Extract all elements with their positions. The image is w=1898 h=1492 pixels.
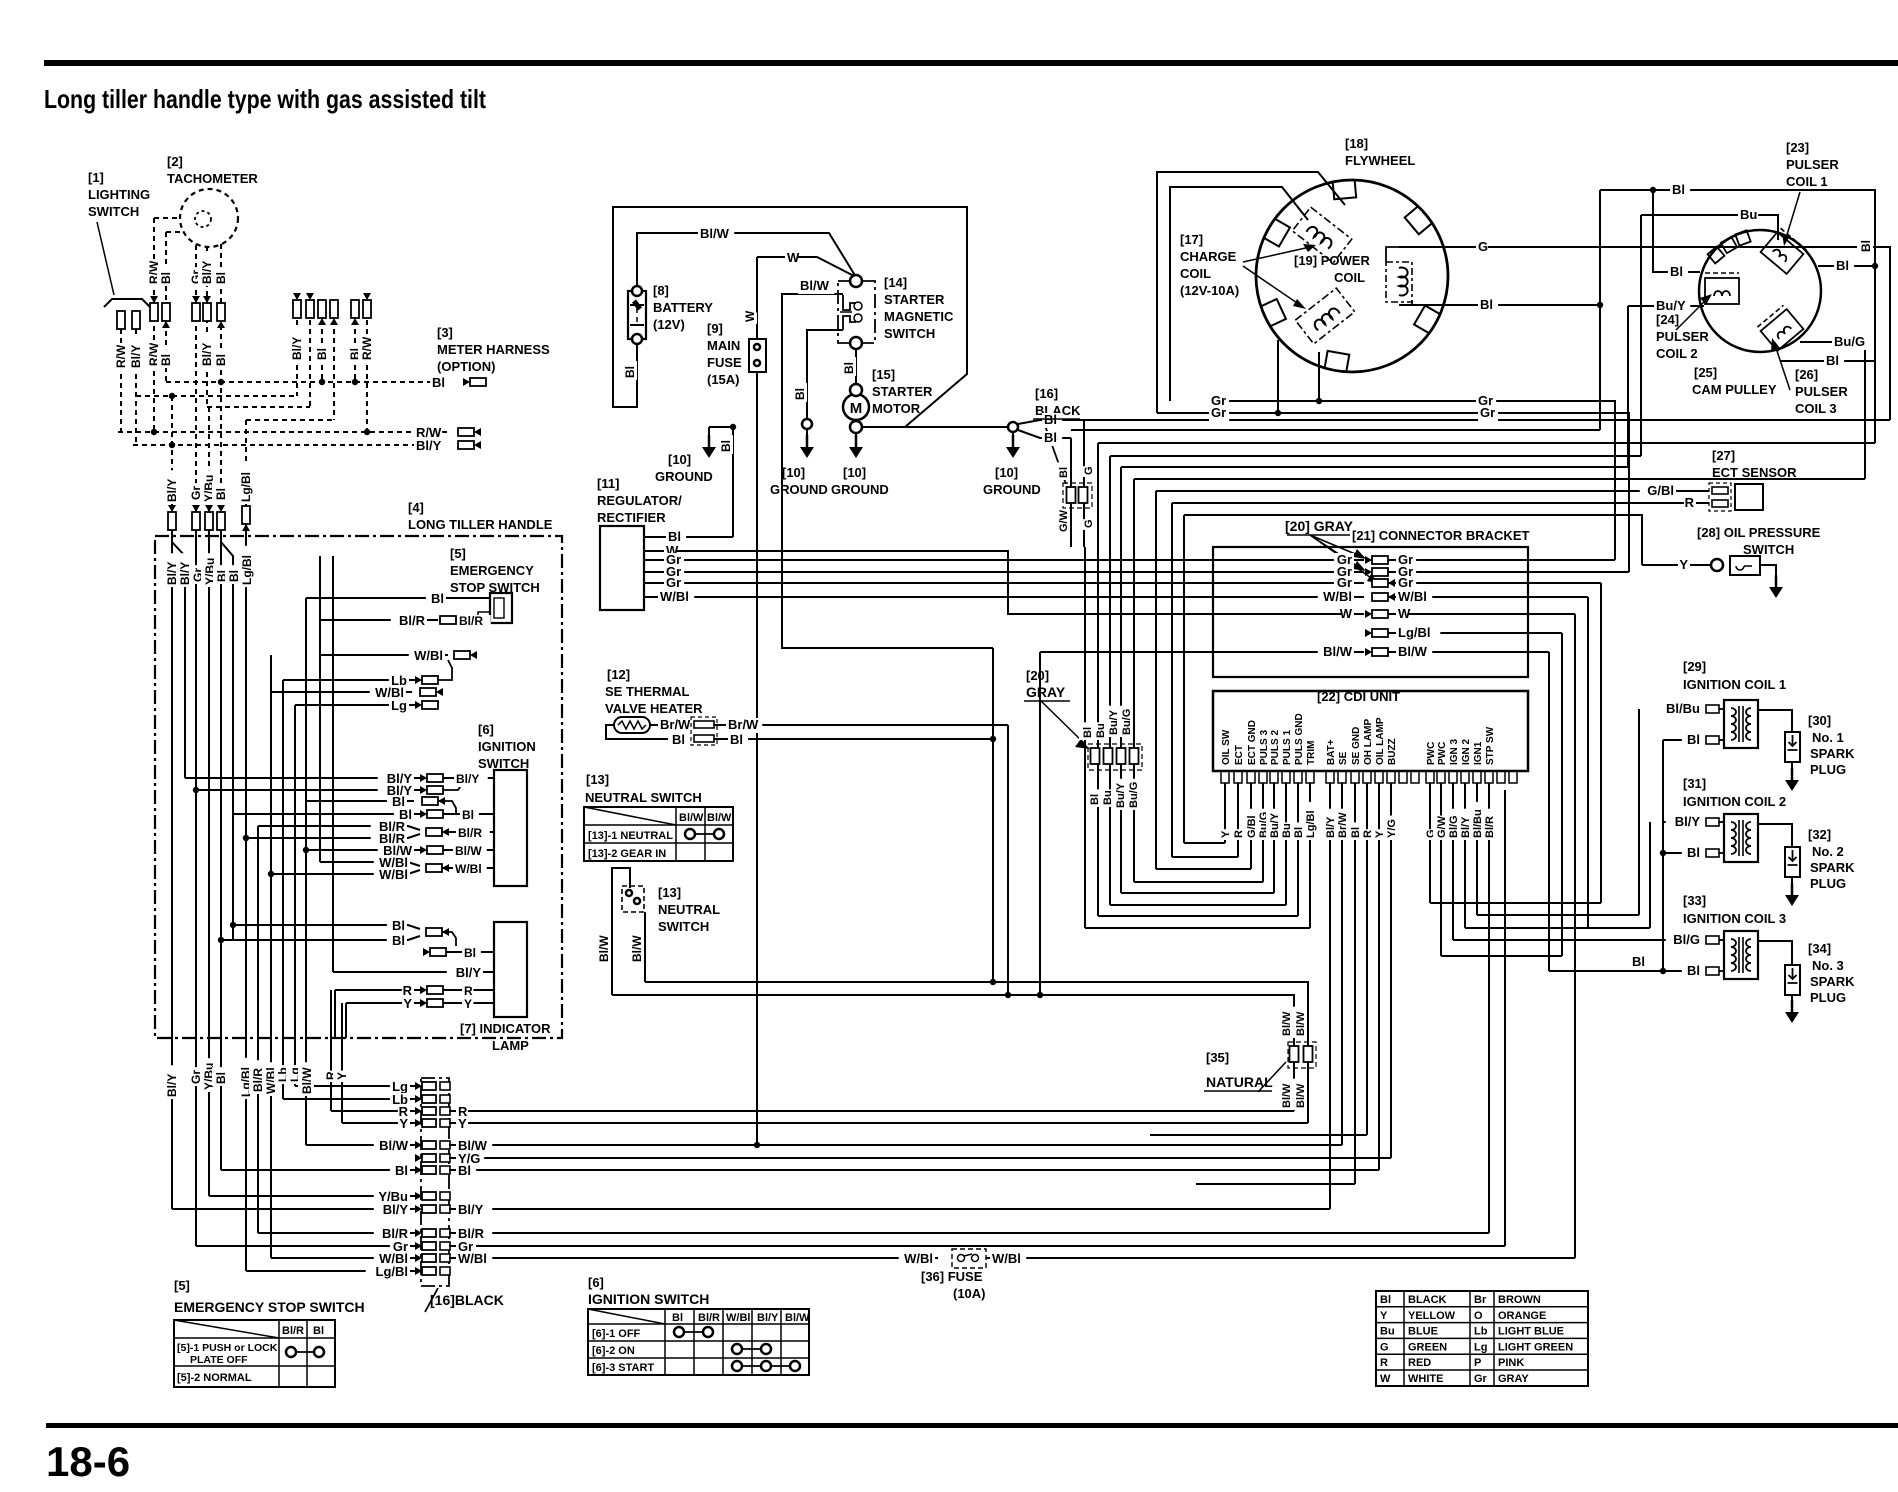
svg-text:LAMP: LAMP (492, 1038, 529, 1053)
svg-text:BATTERY: BATTERY (653, 300, 713, 315)
svg-text:SWITCH: SWITCH (478, 756, 529, 771)
svg-text:[10]: [10] (668, 452, 691, 467)
svg-text:Bl/W: Bl/W (707, 812, 732, 824)
svg-text:Y: Y (464, 997, 472, 1011)
svg-text:Bl: Bl (214, 488, 228, 500)
svg-text:R: R (1685, 495, 1695, 510)
svg-text:Bl/W: Bl/W (300, 1067, 314, 1094)
svg-text:Bl: Bl (313, 1325, 324, 1337)
svg-text:Y: Y (1380, 1310, 1388, 1322)
svg-text:Bl: Bl (1044, 430, 1057, 445)
svg-text:PULSER: PULSER (1786, 157, 1839, 172)
svg-text:Bl/W: Bl/W (700, 226, 730, 241)
svg-text:BLUE: BLUE (1408, 1326, 1438, 1338)
svg-text:Gr: Gr (666, 575, 681, 590)
svg-text:G: G (1083, 519, 1095, 528)
svg-text:PLUG: PLUG (1810, 990, 1846, 1005)
svg-text:IGNITION: IGNITION (478, 739, 536, 754)
svg-text:Bl/W: Bl/W (1323, 644, 1353, 659)
svg-text:COIL 3: COIL 3 (1795, 401, 1837, 416)
svg-text:STARTER: STARTER (872, 384, 933, 399)
svg-text:[21] CONNECTOR BRACKET: [21] CONNECTOR BRACKET (1352, 528, 1529, 543)
svg-text:[9]: [9] (707, 321, 723, 336)
svg-text:Bl: Bl (672, 1312, 683, 1324)
svg-text:LIGHT BLUE: LIGHT BLUE (1498, 1326, 1564, 1338)
svg-text:W/Bl: W/Bl (1398, 589, 1427, 604)
svg-text:[12]: [12] (607, 667, 630, 682)
svg-text:BLACK: BLACK (1408, 1294, 1447, 1306)
svg-text:LIGHT GREEN: LIGHT GREEN (1498, 1341, 1573, 1353)
svg-text:Bl/Y: Bl/Y (200, 261, 214, 284)
svg-text:VALVE HEATER: VALVE HEATER (605, 701, 703, 716)
svg-text:[30]: [30] (1808, 713, 1831, 728)
svg-text:W/Bl: W/Bl (1323, 589, 1352, 604)
svg-text:Gr: Gr (1480, 405, 1495, 420)
svg-text:Bu/Y: Bu/Y (1656, 298, 1686, 313)
svg-text:[10]: [10] (782, 465, 805, 480)
svg-text:W/Bl: W/Bl (660, 589, 689, 604)
svg-text:[20] GRAY: [20] GRAY (1285, 518, 1354, 534)
svg-text:Bl: Bl (1632, 954, 1645, 969)
svg-text:[13]: [13] (586, 772, 609, 787)
svg-text:Bl: Bl (672, 732, 685, 747)
svg-text:Lg: Lg (391, 698, 407, 713)
svg-text:Y: Y (1679, 557, 1688, 572)
svg-text:PLUG: PLUG (1810, 762, 1846, 777)
svg-text:W/Bl: W/Bl (904, 1251, 933, 1266)
svg-text:Bl/R: Bl/R (399, 613, 426, 628)
svg-text:[31]: [31] (1683, 776, 1706, 791)
svg-text:Bl: Bl (1687, 732, 1700, 747)
svg-text:Gr: Gr (1337, 575, 1352, 590)
svg-text:W/Bl: W/Bl (458, 1251, 487, 1266)
svg-text:WHITE: WHITE (1408, 1373, 1443, 1385)
svg-text:Bl: Bl (1687, 845, 1700, 860)
svg-text:ECT SENSOR: ECT SENSOR (1712, 465, 1797, 480)
svg-text:TRIM: TRIM (1306, 741, 1317, 765)
svg-text:BUZZ: BUZZ (1387, 738, 1398, 765)
svg-text:(12V): (12V) (653, 317, 685, 332)
svg-text:IGNITION COIL 1: IGNITION COIL 1 (1683, 677, 1786, 692)
svg-text:Lg/Bl: Lg/Bl (1398, 625, 1431, 640)
svg-text:COIL: COIL (1180, 266, 1211, 281)
svg-text:Bl/Y: Bl/Y (290, 337, 304, 360)
svg-text:[19] POWER: [19] POWER (1294, 253, 1370, 268)
svg-text:G: G (1083, 466, 1095, 475)
svg-text:[34]: [34] (1808, 941, 1831, 956)
svg-text:M: M (850, 400, 863, 417)
svg-text:[5]: [5] (174, 1278, 190, 1293)
svg-text:Bl/R: Bl/R (698, 1312, 720, 1324)
svg-text:EMERGENCY: EMERGENCY (450, 563, 534, 578)
svg-text:[6]-3 START: [6]-3 START (592, 1362, 654, 1374)
svg-text:MAIN: MAIN (707, 338, 740, 353)
svg-text:EMERGENCY STOP SWITCH: EMERGENCY STOP SWITCH (174, 1299, 365, 1315)
svg-text:[36] FUSE: [36] FUSE (921, 1269, 983, 1284)
svg-text:[27]: [27] (1712, 448, 1735, 463)
svg-text:Bl: Bl (214, 272, 228, 284)
svg-text:GROUND: GROUND (983, 482, 1041, 497)
svg-text:[5]-1 PUSH or LOCK: [5]-1 PUSH or LOCK (177, 1342, 278, 1354)
svg-text:BROWN: BROWN (1498, 1294, 1541, 1306)
svg-text:(OPTION): (OPTION) (437, 359, 496, 374)
svg-text:Bl/Y: Bl/Y (129, 345, 143, 368)
svg-text:P: P (1474, 1357, 1481, 1369)
svg-text:PINK: PINK (1498, 1357, 1524, 1369)
svg-text:[23]: [23] (1786, 140, 1809, 155)
svg-text:Bl/W: Bl/W (1281, 1083, 1293, 1108)
svg-text:METER HARNESS: METER HARNESS (437, 342, 550, 357)
svg-text:FLYWHEEL: FLYWHEEL (1345, 153, 1415, 168)
svg-text:[2]: [2] (167, 154, 183, 169)
svg-text:IGNITION SWITCH: IGNITION SWITCH (588, 1291, 709, 1307)
svg-text:Bl/Y: Bl/Y (456, 772, 479, 786)
svg-text:REGULATOR/: REGULATOR/ (597, 493, 682, 508)
svg-text:Bl: Bl (159, 354, 173, 366)
svg-text:Y: Y (458, 1116, 467, 1131)
svg-text:[13]-1 NEUTRAL: [13]-1 NEUTRAL (588, 830, 673, 842)
svg-text:SWITCH: SWITCH (884, 326, 935, 341)
svg-text:Lg/Bl: Lg/Bl (1305, 811, 1317, 839)
svg-text:IGNITION COIL 3: IGNITION COIL 3 (1683, 911, 1786, 926)
svg-text:Gr: Gr (1211, 405, 1226, 420)
svg-text:[13]: [13] (658, 885, 681, 900)
svg-text:[28] OIL PRESSURE: [28] OIL PRESSURE (1697, 525, 1821, 540)
svg-text:Y: Y (403, 996, 412, 1011)
svg-text:W/Bl: W/Bl (455, 862, 482, 876)
svg-text:SPARK: SPARK (1810, 746, 1855, 761)
svg-text:GRAY: GRAY (1026, 684, 1066, 700)
svg-text:No. 1: No. 1 (1812, 730, 1844, 745)
svg-text:[10]: [10] (843, 465, 866, 480)
svg-text:[15]: [15] (872, 367, 895, 382)
svg-text:Bl: Bl (793, 388, 807, 400)
svg-text:Bl/R: Bl/R (458, 826, 482, 840)
svg-text:STP SW: STP SW (1485, 726, 1496, 765)
svg-text:Bl: Bl (392, 933, 405, 948)
svg-text:PLATE OFF: PLATE OFF (190, 1354, 248, 1366)
svg-text:PLUG: PLUG (1810, 876, 1846, 891)
svg-text:Bl: Bl (1672, 182, 1685, 197)
svg-text:Bl/W: Bl/W (1281, 1011, 1293, 1036)
svg-text:Br/W: Br/W (660, 717, 691, 732)
svg-text:Bl: Bl (431, 591, 444, 606)
svg-text:[7] INDICATOR: [7] INDICATOR (460, 1021, 551, 1036)
svg-text:YELLOW: YELLOW (1408, 1310, 1456, 1322)
svg-text:Bl/Y: Bl/Y (165, 1074, 179, 1097)
svg-text:Bl: Bl (730, 732, 743, 747)
svg-text:Bl/R: Bl/R (459, 614, 483, 628)
svg-text:Bl: Bl (668, 529, 681, 544)
svg-text:Bl/Y: Bl/Y (383, 1202, 409, 1217)
svg-text:R: R (464, 984, 473, 998)
svg-text:SWITCH: SWITCH (88, 204, 139, 219)
svg-text:Bl/Y: Bl/Y (458, 1202, 484, 1217)
svg-text:[10]: [10] (995, 465, 1018, 480)
svg-text:Bl: Bl (1859, 240, 1873, 252)
svg-text:[6]: [6] (588, 1275, 604, 1290)
svg-text:(12V-10A): (12V-10A) (1180, 283, 1239, 298)
svg-text:Bl: Bl (842, 362, 856, 374)
svg-text:Bu/G: Bu/G (1834, 334, 1865, 349)
svg-text:G/W: G/W (1058, 509, 1070, 532)
svg-text:Bl/W: Bl/W (1295, 1083, 1307, 1108)
svg-text:RED: RED (1408, 1357, 1431, 1369)
svg-text:G: G (1478, 239, 1488, 254)
svg-text:G/Bl: G/Bl (1647, 483, 1674, 498)
svg-text:Lg: Lg (1474, 1341, 1487, 1353)
svg-text:Bl/Y: Bl/Y (757, 1312, 779, 1324)
svg-text:W: W (1380, 1373, 1391, 1385)
svg-text:Bl: Bl (432, 375, 445, 390)
svg-text:COIL: COIL (1334, 270, 1365, 285)
svg-text:Lg/Bl: Lg/Bl (376, 1264, 409, 1279)
svg-text:Lb: Lb (1474, 1326, 1488, 1338)
svg-text:GROUND: GROUND (831, 482, 889, 497)
svg-text:Bl/W: Bl/W (597, 935, 611, 962)
svg-text:Bl: Bl (395, 1163, 408, 1178)
svg-text:Bl: Bl (392, 918, 405, 933)
svg-text:[26]: [26] (1795, 367, 1818, 382)
svg-text:Bl/Y: Bl/Y (456, 965, 482, 980)
svg-text:Bl/Y: Bl/Y (416, 438, 442, 453)
svg-text:SE THERMAL: SE THERMAL (605, 684, 690, 699)
svg-text:Lg/Bl: Lg/Bl (239, 472, 253, 502)
svg-text:[6]: [6] (478, 722, 494, 737)
svg-text:Gr: Gr (1398, 575, 1413, 590)
svg-text:Bl: Bl (719, 440, 733, 452)
svg-text:[14]: [14] (884, 275, 907, 290)
svg-text:O: O (1474, 1310, 1483, 1322)
svg-text:W/Bl: W/Bl (726, 1312, 750, 1324)
svg-text:STARTER: STARTER (884, 292, 945, 307)
svg-text:SWITCH: SWITCH (658, 919, 709, 934)
svg-text:SPARK: SPARK (1810, 974, 1855, 989)
svg-text:GRAY: GRAY (1498, 1373, 1529, 1385)
svg-text:[18]: [18] (1345, 136, 1368, 151)
svg-text:[22] CDI UNIT: [22] CDI UNIT (1317, 689, 1400, 704)
svg-text:GROUND: GROUND (770, 482, 828, 497)
svg-text:[20]: [20] (1026, 668, 1049, 683)
svg-text:Bu: Bu (1740, 207, 1757, 222)
svg-text:Bl/Bu: Bl/Bu (1666, 701, 1700, 716)
svg-text:Bl: Bl (214, 354, 228, 366)
svg-text:Bl: Bl (1670, 264, 1683, 279)
svg-text:Bl: Bl (214, 1072, 228, 1084)
svg-text:[4]: [4] (408, 500, 424, 515)
svg-text:W: W (743, 310, 757, 322)
svg-text:[17]: [17] (1180, 232, 1203, 247)
svg-text:[13]-2 GEAR IN: [13]-2 GEAR IN (588, 848, 666, 860)
svg-text:18-6: 18-6 (46, 1438, 130, 1485)
svg-text:W: W (1340, 606, 1353, 621)
svg-text:Bl/R: Bl/R (1484, 816, 1496, 838)
svg-text:Bl: Bl (1826, 353, 1839, 368)
svg-text:NATURAL: NATURAL (1206, 1074, 1273, 1090)
svg-text:FUSE: FUSE (707, 355, 742, 370)
svg-text:Bl: Bl (1380, 1294, 1391, 1306)
svg-text:[6]-2 ON: [6]-2 ON (592, 1345, 635, 1357)
svg-text:Bl/R: Bl/R (282, 1325, 304, 1337)
svg-text:Bl/W: Bl/W (800, 278, 830, 293)
svg-text:LIGHTING: LIGHTING (88, 187, 150, 202)
svg-text:Bl: Bl (1480, 297, 1493, 312)
svg-text:Bl: Bl (623, 366, 637, 378)
svg-text:W/Bl: W/Bl (414, 648, 443, 663)
svg-text:ORANGE: ORANGE (1498, 1310, 1546, 1322)
svg-text:Y: Y (335, 1072, 349, 1080)
svg-text:R/W: R/W (114, 344, 128, 368)
svg-text:W: W (787, 250, 800, 265)
svg-text:COIL 1: COIL 1 (1786, 174, 1828, 189)
svg-text:Bl/W: Bl/W (1398, 644, 1428, 659)
svg-text:MAGNETIC: MAGNETIC (884, 309, 954, 324)
svg-text:[1]: [1] (88, 170, 104, 185)
svg-text:[16]: [16] (1035, 386, 1058, 401)
svg-text:PULSER: PULSER (1795, 384, 1848, 399)
svg-text:CHARGE: CHARGE (1180, 249, 1237, 264)
svg-text:RECTIFIER: RECTIFIER (597, 510, 666, 525)
svg-text:NEUTRAL: NEUTRAL (658, 902, 720, 917)
svg-text:Bl: Bl (464, 946, 476, 960)
svg-text:W: W (1398, 606, 1411, 621)
svg-text:[8]: [8] (653, 283, 669, 298)
svg-text:Bl: Bl (1836, 258, 1849, 273)
svg-text:Bl: Bl (458, 1163, 471, 1178)
svg-text:Bl: Bl (462, 808, 474, 822)
svg-text:GROUND: GROUND (655, 469, 713, 484)
svg-text:[24]: [24] (1656, 312, 1679, 327)
svg-text:[32]: [32] (1808, 827, 1831, 842)
svg-text:MOTOR: MOTOR (872, 401, 921, 416)
svg-text:LONG TILLER HANDLE: LONG TILLER HANDLE (408, 517, 553, 532)
svg-text:(10A): (10A) (953, 1286, 986, 1301)
svg-text:TACHOMETER: TACHOMETER (167, 171, 258, 186)
svg-text:OIL SW: OIL SW (1221, 729, 1232, 765)
svg-text:[5]-2 NORMAL: [5]-2 NORMAL (177, 1372, 252, 1384)
svg-text:PULSER: PULSER (1656, 329, 1709, 344)
svg-text:Br: Br (1474, 1294, 1487, 1306)
svg-text:Bl: Bl (1058, 467, 1070, 478)
svg-text:No. 2: No. 2 (1812, 844, 1844, 859)
svg-text:Gr: Gr (1474, 1373, 1488, 1385)
svg-text:Y: Y (399, 1116, 408, 1131)
svg-text:Bl/W: Bl/W (679, 812, 704, 824)
svg-text:(15A): (15A) (707, 372, 740, 387)
svg-text:W/Bl: W/Bl (992, 1251, 1021, 1266)
svg-text:Bl/Y: Bl/Y (165, 479, 179, 502)
svg-text:[25]: [25] (1694, 365, 1717, 380)
svg-text:[11]: [11] (597, 476, 619, 491)
svg-text:Bl/W: Bl/W (785, 1312, 810, 1324)
svg-text:Bl/Y: Bl/Y (200, 343, 214, 366)
svg-text:Long tiller handle type with g: Long tiller handle type with gas assiste… (44, 84, 486, 114)
svg-text:Bl/W: Bl/W (379, 1138, 409, 1153)
svg-text:[5]: [5] (450, 546, 466, 561)
svg-text:[6]-1 OFF: [6]-1 OFF (592, 1328, 641, 1340)
svg-text:W/Bl: W/Bl (379, 867, 408, 882)
svg-text:SE: SE (1338, 751, 1349, 765)
svg-text:Lg/Bl: Lg/Bl (240, 555, 254, 585)
svg-text:R: R (1380, 1357, 1388, 1369)
svg-text:SWITCH: SWITCH (1743, 542, 1794, 557)
svg-text:Bl: Bl (1687, 963, 1700, 978)
svg-text:GREEN: GREEN (1408, 1341, 1447, 1353)
svg-text:Bl: Bl (315, 348, 329, 360)
svg-text:Bl/W: Bl/W (455, 844, 482, 858)
svg-text:Bu: Bu (1380, 1326, 1395, 1338)
svg-text:[33]: [33] (1683, 893, 1706, 908)
svg-text:[16]BLACK: [16]BLACK (430, 1292, 504, 1308)
svg-text:NEUTRAL SWITCH: NEUTRAL SWITCH (585, 790, 702, 805)
svg-text:Y/G: Y/G (1386, 819, 1398, 838)
svg-text:ECT: ECT (1234, 745, 1245, 765)
svg-text:Bl: Bl (159, 272, 173, 284)
svg-text:[29]: [29] (1683, 659, 1706, 674)
svg-text:CAM PULLEY: CAM PULLEY (1692, 382, 1777, 397)
svg-text:Bu/G: Bu/G (1128, 782, 1140, 808)
svg-text:Bl/G: Bl/G (1673, 932, 1700, 947)
svg-text:Br/W: Br/W (728, 717, 759, 732)
svg-text:Bu/G: Bu/G (1121, 709, 1133, 735)
svg-text:G: G (1380, 1341, 1389, 1353)
svg-text:Bl/W: Bl/W (1295, 1011, 1307, 1036)
svg-text:[3]: [3] (437, 325, 453, 340)
svg-text:[35]: [35] (1206, 1050, 1229, 1065)
svg-text:SPARK: SPARK (1810, 860, 1855, 875)
svg-text:Bl/W: Bl/W (630, 935, 644, 962)
svg-text:COIL 2: COIL 2 (1656, 346, 1698, 361)
svg-text:R/W: R/W (360, 336, 374, 360)
svg-text:IGNITION COIL 2: IGNITION COIL 2 (1683, 794, 1786, 809)
svg-text:Bl/Y: Bl/Y (1675, 814, 1701, 829)
svg-text:No. 3: No. 3 (1812, 958, 1844, 973)
